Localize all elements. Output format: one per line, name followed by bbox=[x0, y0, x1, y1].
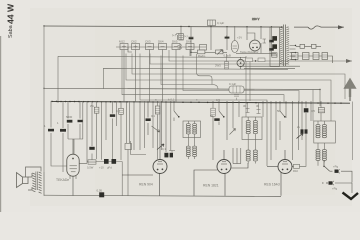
capacitor C7 bbox=[164, 153, 168, 158]
choke T4 box bbox=[314, 121, 336, 143]
T3 coil a bbox=[246, 121, 250, 134]
svg-text:0,05: 0,05 bbox=[97, 189, 103, 193]
vertical x271 bbox=[270, 101, 272, 160]
heater resistor row bbox=[292, 53, 299, 60]
pot box 2 bbox=[216, 50, 224, 54]
switch box S6 bbox=[186, 44, 194, 50]
switch drops bbox=[124, 47, 190, 102]
pot arrow bbox=[217, 50, 223, 55]
resistor R6 bbox=[88, 160, 96, 164]
T2 coil b bbox=[193, 124, 197, 135]
resistor R-ant bbox=[179, 34, 184, 41]
upper small caps bbox=[300, 44, 305, 48]
underline label line bbox=[236, 52, 276, 54]
title Saba 44W (rotated) bbox=[6, 3, 16, 38]
tube V4 circle bbox=[267, 150, 294, 196]
aerial tick bbox=[176, 34, 179, 41]
chain resistor Rc1 bbox=[246, 58, 253, 62]
wire top rail bbox=[44, 26, 283, 27]
svg-text:+10: +10 bbox=[99, 166, 104, 170]
capacitor C8 bbox=[170, 153, 173, 158]
vertical x191 long bbox=[190, 50, 192, 56]
wire x153 bbox=[152, 101, 154, 148]
wire x140 bbox=[139, 101, 141, 150]
resistor R7 bbox=[294, 140, 307, 168]
wire rail B corner down bbox=[319, 90, 321, 107]
bias chain bbox=[87, 141, 146, 196]
vertical x213 bbox=[212, 101, 214, 160]
svg-text:D64: D64 bbox=[158, 40, 164, 44]
dial wire bbox=[210, 26, 212, 51]
bottom return rail bbox=[44, 195, 281, 196]
svg-text:REN 1821: REN 1821 bbox=[203, 184, 219, 188]
switch box S1 bbox=[120, 44, 128, 50]
capacitor C6 bbox=[146, 118, 151, 121]
grid wire V2 bbox=[131, 141, 146, 155]
svg-text:(+): (+) bbox=[172, 33, 176, 37]
small tube V-osc oval bbox=[231, 41, 238, 53]
svg-text:+2V: +2V bbox=[237, 36, 242, 40]
switch labels bbox=[119, 40, 192, 44]
svg-text:0,3: 0,3 bbox=[116, 109, 120, 113]
capacitor C11 bbox=[305, 129, 308, 133]
svg-text:TEKADe: TEKADe bbox=[56, 178, 69, 182]
wire x87 bbox=[86, 101, 88, 163]
wire x83 bbox=[82, 101, 84, 139]
capacitor C1 bbox=[48, 129, 54, 132]
wire second box top bbox=[58, 56, 246, 57]
cap bank box bbox=[270, 27, 280, 67]
svg-text:M12: M12 bbox=[119, 40, 125, 44]
svg-text:50: 50 bbox=[277, 109, 281, 113]
svg-text:50: 50 bbox=[210, 114, 214, 118]
capacitor C3 bbox=[67, 120, 73, 123]
tube U-mix circle bbox=[250, 40, 261, 51]
switch box S4 bbox=[159, 44, 167, 50]
routing wire rounded bbox=[197, 54, 212, 85]
T5 primary winding bbox=[32, 173, 35, 192]
wire pickup feed bbox=[352, 102, 354, 161]
grid cap pair left bbox=[68, 101, 83, 154]
harness line 3 bbox=[150, 54, 288, 65]
capacitor C14 bbox=[104, 159, 109, 164]
svg-text:220 V: 220 V bbox=[252, 17, 259, 21]
svg-text:C62: C62 bbox=[131, 40, 137, 44]
vertical x263 bbox=[263, 101, 267, 166]
svg-text:+Pg: +Pg bbox=[332, 187, 337, 191]
capacitor C4 bbox=[78, 120, 83, 122]
T4 lower coil a bbox=[316, 150, 320, 161]
svg-text:Radio: Radio bbox=[198, 54, 206, 58]
trimmer C-t1 bbox=[262, 39, 265, 43]
chain resistor Rc2 bbox=[258, 58, 265, 62]
svg-text:0,1: 0,1 bbox=[162, 147, 166, 151]
chain labels bbox=[87, 166, 112, 170]
wire x161 bbox=[161, 101, 163, 150]
vertical x321 with resistor R5 bbox=[320, 101, 322, 121]
chassis bus bbox=[52, 101, 350, 103]
harness arrow right bbox=[346, 59, 352, 63]
vertical x239 bbox=[238, 101, 240, 117]
output transformer T5 core bbox=[36, 172, 38, 191]
capacitor C13 on bottom rail bbox=[99, 192, 104, 197]
vertical x112 with capacitor C5 bbox=[112, 101, 114, 160]
svg-text:5000: 5000 bbox=[66, 115, 73, 119]
T3 lower coil a bbox=[246, 150, 250, 161]
can riser bbox=[312, 90, 314, 121]
output tube V1 oval bbox=[67, 139, 87, 196]
chain wire bbox=[87, 161, 122, 163]
resistor R-k bbox=[225, 54, 229, 69]
IF transformer T3 box bbox=[242, 117, 262, 140]
secondary winding bbox=[286, 27, 289, 64]
svg-text:2W5: 2W5 bbox=[215, 64, 221, 68]
wire left vertical bbox=[43, 26, 45, 172]
harness line 4 bbox=[132, 54, 345, 100]
svg-text:Wn: Wn bbox=[90, 104, 95, 108]
svg-text:R10: R10 bbox=[293, 169, 298, 173]
svg-text:0,5W: 0,5W bbox=[87, 166, 94, 170]
harness line 6 curved feeder bbox=[161, 56, 218, 90]
wire x92 with capacitor C16 bbox=[91, 101, 93, 160]
pickup switch bbox=[322, 160, 352, 193]
big arrow up (mains) bbox=[346, 80, 355, 97]
harness line 2 bbox=[169, 50, 352, 61]
IF transformer T2 box bbox=[183, 121, 201, 138]
T2 lower coil a bbox=[186, 146, 190, 157]
AVC arrow bbox=[297, 133, 304, 139]
switch box inner marks bbox=[122, 45, 192, 49]
svg-text:RES 164d: RES 164d bbox=[264, 183, 280, 187]
T4 coil b bbox=[322, 125, 326, 138]
capacitor C-a bbox=[189, 26, 194, 37]
secondary taps bbox=[290, 46, 296, 60]
top middle cluster bbox=[179, 20, 276, 56]
switch bank connecting line bbox=[116, 46, 206, 48]
T5 left lead bbox=[28, 173, 32, 190]
harness line 1 bbox=[245, 56, 247, 117]
svg-text:0,5: 0,5 bbox=[311, 109, 315, 113]
vertical x306 with capacitor C12 bbox=[305, 101, 307, 140]
volume pot bbox=[148, 101, 160, 135]
top rail junction dots bbox=[181, 26, 272, 28]
wiring harness nest bbox=[122, 50, 352, 122]
svg-text:0,1µF: 0,1µF bbox=[229, 82, 236, 86]
switch box S5 bbox=[172, 44, 180, 50]
svg-text:Taste-Klaviatur: Taste-Klaviatur bbox=[240, 50, 259, 54]
capacitor C9 bbox=[214, 118, 219, 121]
electrolytic C-e2 bbox=[272, 44, 277, 49]
rail B junction dots bbox=[44, 26, 320, 90]
switch box S3 bbox=[146, 44, 154, 50]
wire x233 bbox=[232, 101, 234, 128]
vertical x63 bbox=[62, 101, 64, 172]
plug wires bbox=[335, 171, 352, 193]
pot box Radio bbox=[197, 50, 205, 54]
svg-text:0,5µB: 0,5µB bbox=[224, 54, 231, 58]
svg-text:REN 904: REN 904 bbox=[139, 183, 153, 187]
transformer bottom rails bbox=[240, 66, 300, 68]
svg-text:(+): (+) bbox=[184, 34, 188, 38]
switch K1 bbox=[174, 101, 179, 121]
svg-text:0,1µF: 0,1µF bbox=[217, 21, 224, 25]
T4 coil a bbox=[316, 125, 320, 138]
capacitor C10 bbox=[301, 129, 304, 133]
chain drop bbox=[249, 62, 251, 102]
assorted small value labels bbox=[44, 21, 315, 151]
svg-text:0,5: 0,5 bbox=[216, 98, 220, 102]
vertical x129 with component bbox=[127, 101, 130, 143]
capacitor C-b bbox=[226, 35, 227, 37]
vertical x51 bbox=[51, 101, 67, 166]
wire x101 bbox=[101, 101, 103, 160]
earth chevron bbox=[343, 193, 359, 200]
resistor R-b bbox=[272, 53, 277, 57]
meter circle bbox=[237, 59, 244, 66]
harness line 5 bbox=[126, 54, 331, 122]
bus junction dots bbox=[51, 101, 342, 104]
switch box S7 bbox=[200, 45, 207, 51]
plug contact P1 bbox=[335, 170, 339, 173]
plug contact P2 bbox=[329, 181, 333, 184]
wire x122 down bbox=[121, 162, 123, 196]
T4 lower coil b bbox=[322, 150, 326, 161]
svg-text:44 W: 44 W bbox=[6, 3, 16, 24]
switch K3 bbox=[280, 101, 285, 140]
bus corner up to arrow bbox=[349, 88, 351, 101]
wire x276 bbox=[275, 101, 277, 150]
svg-text:µFd: µFd bbox=[107, 166, 112, 170]
capacitor C2 bbox=[60, 129, 66, 132]
power transformer T1 bbox=[240, 25, 333, 69]
jack contacts bbox=[178, 44, 182, 49]
svg-text:30: 30 bbox=[243, 104, 247, 108]
speaker lead loop bbox=[26, 167, 42, 177]
capacitor block C-c bbox=[269, 40, 274, 43]
wire x144 bbox=[144, 101, 146, 148]
antenna lead loop bbox=[308, 26, 321, 29]
svg-text:2µ: 2µ bbox=[297, 125, 301, 129]
harness line 7 bbox=[183, 56, 299, 104]
tube top lead bbox=[247, 26, 255, 40]
cluster verticals bbox=[261, 26, 272, 56]
C10 leads bbox=[301, 101, 303, 140]
wire x116 bbox=[116, 101, 118, 126]
resistor R4 bbox=[157, 101, 159, 159]
wire x106 bbox=[105, 101, 107, 140]
vertical x121 with resistor R3 bbox=[120, 101, 122, 160]
svg-text:C63: C63 bbox=[145, 40, 151, 44]
T5 secondary winding bbox=[39, 172, 42, 193]
antenna arrow bbox=[338, 25, 344, 29]
verticals heater bbox=[286, 101, 299, 160]
svg-text:Saba: Saba bbox=[8, 25, 14, 38]
dial lamp box bbox=[208, 20, 216, 26]
band switch row bbox=[116, 34, 207, 102]
trimmer C-t2 bbox=[246, 103, 250, 118]
T2 lower coil b bbox=[193, 146, 197, 157]
T5 right lead to bottom rail bbox=[43, 172, 45, 196]
trimmer C-t3 bbox=[257, 103, 261, 114]
pot arrow 2 bbox=[227, 101, 236, 140]
vertical feed x181 bbox=[180, 26, 182, 40]
resistor R8 bbox=[211, 108, 216, 116]
pot line bbox=[191, 51, 227, 53]
row link bbox=[298, 56, 333, 63]
primary winding bbox=[280, 27, 283, 64]
tube V3 circle bbox=[194, 148, 248, 196]
switch box S2 bbox=[132, 44, 140, 50]
wire x134 bbox=[133, 101, 135, 150]
svg-text:D65: D65 bbox=[172, 40, 178, 44]
primary top lead bbox=[282, 25, 289, 28]
svg-text:b 0,1: b 0,1 bbox=[168, 98, 175, 102]
wire x170 bbox=[170, 101, 172, 151]
capacitor box on rail B bbox=[229, 86, 244, 100]
capacitor block C-d bbox=[269, 48, 274, 51]
switch K2 bbox=[219, 101, 224, 125]
left scan edge bbox=[0, 36, 1, 212]
T3 lower coil b bbox=[253, 150, 257, 161]
svg-text:30: 30 bbox=[256, 104, 260, 108]
harness line 9 bbox=[140, 54, 267, 104]
wire rail B bbox=[44, 88, 320, 89]
vertical x227 bbox=[226, 26, 228, 50]
svg-text:0,1: 0,1 bbox=[151, 114, 155, 118]
capacitor C15 bbox=[112, 159, 117, 164]
vertical x97 with resistor R2 bbox=[96, 101, 98, 159]
speaker bbox=[17, 173, 29, 188]
T2 coil a bbox=[186, 124, 190, 135]
harness line 8 bbox=[122, 50, 284, 104]
wire third box bbox=[103, 68, 288, 88]
svg-text:+Pg: +Pg bbox=[333, 165, 338, 169]
tube V2 circle bbox=[122, 103, 167, 196]
vertical x166 bbox=[165, 101, 167, 152]
T3 coil b bbox=[253, 121, 257, 134]
wire second box left bbox=[57, 56, 59, 103]
tap dots bbox=[295, 45, 296, 46]
transformer core bbox=[283, 25, 285, 67]
wire antenna lead bbox=[294, 26, 344, 28]
wire x311 bbox=[310, 101, 312, 121]
electrolytic C-e1 bbox=[272, 36, 277, 41]
